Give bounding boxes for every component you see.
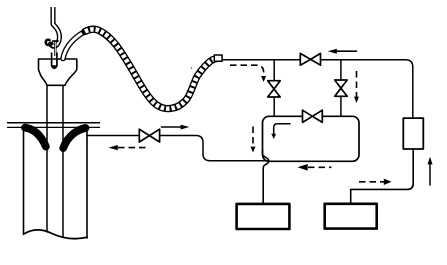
hook tip blob (49, 41, 52, 44)
wire: right drop to valve V3 (340, 60, 342, 80)
scan speck (190, 67, 192, 69)
valve V1 (top header, horizontal bowtie) (300, 53, 320, 65)
casing (24, 127, 88, 238)
wire: valve V2 to manifold (273, 97, 275, 117)
swivel body U1 (39, 59, 77, 85)
swivel bail pin (T-bar) (52, 40, 58, 42)
wire: valve V3 to manifold (340, 96, 342, 117)
arrow: dashed left below flow line (109, 145, 149, 150)
valve V4 (flow line, horizontal bowtie) (139, 129, 159, 142)
arrow: dashed elbow down (from hose end) (230, 65, 266, 82)
valve V5 (manifold top, horizontal bowtie) (303, 110, 323, 122)
pump unit (small rectangle) (403, 118, 423, 149)
hook shank and J-curve (50, 7, 59, 47)
swivel slot (51, 53, 57, 70)
arrow: dashed right above right tank (359, 179, 392, 185)
casing bottom break line (24, 230, 88, 239)
wire: left drop to valve V2 (273, 60, 275, 81)
left tank (237, 204, 290, 229)
hose end coupling (214, 55, 222, 61)
wire: pump to right tank (351, 149, 414, 204)
arrow: solid right above flow line (162, 125, 190, 130)
arrow: dashed down left of manifold (251, 127, 256, 153)
valve V2 (vertical bowtie) (268, 81, 281, 97)
flow line from wellhead (87, 136, 353, 161)
arrow: dashed down right of V3 (354, 71, 359, 103)
rotary hose (smooth section) (63, 31, 86, 59)
arrow: solid up right of pump line (428, 157, 433, 185)
arrow: solid elbow down inside manifold (271, 124, 290, 139)
rotary hose (ribbed section) (85, 29, 216, 108)
arrow: solid left above header (328, 49, 357, 54)
right wellhead seal (63, 128, 85, 148)
swivel stem (54, 42, 56, 56)
wire: top header line (222, 60, 413, 118)
right tank (325, 204, 377, 229)
kelly / drill pipe (47, 85, 63, 236)
hook bail eye (46, 40, 50, 45)
valve V3 (vertical bowtie) (335, 80, 348, 96)
manifold (rounded rectangle) (263, 116, 360, 161)
left wellhead seal (25, 128, 46, 147)
arrow: dashed left below manifold (298, 164, 332, 171)
wellhead flange lines (8, 123, 100, 128)
wire: jog crossover down to left tank (263, 150, 269, 204)
